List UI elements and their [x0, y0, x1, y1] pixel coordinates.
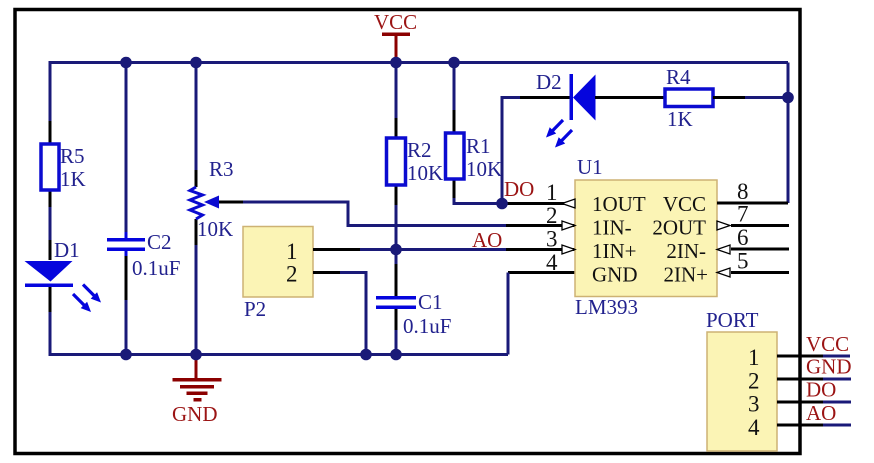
wire: bottom ground rail — [50, 353, 508, 356]
svg-text:3: 3 — [546, 227, 558, 252]
svg-text:D2: D2 — [536, 70, 562, 94]
junction: C1 / ground rail — [390, 349, 402, 361]
wire: R3 wiper to U1 pin 2 — [219, 202, 575, 226]
svg-text:GND: GND — [172, 402, 218, 426]
wire: P2 pin1 to AO net — [313, 248, 575, 251]
VCC power symbol — [374, 10, 417, 62]
svg-text:0.1uF: 0.1uF — [403, 314, 451, 338]
svg-text:1OUT: 1OUT — [592, 192, 646, 216]
svg-text:2: 2 — [748, 369, 760, 394]
junction: DO node — [496, 198, 508, 210]
svg-text:P2: P2 — [244, 297, 266, 321]
svg-text:AO: AO — [806, 401, 836, 425]
junction: VCC / R2 — [390, 57, 402, 69]
svg-text:1IN-: 1IN- — [592, 216, 632, 240]
svg-text:DO: DO — [504, 177, 534, 201]
svg-text:2IN+: 2IN+ — [663, 263, 708, 287]
svg-text:2IN-: 2IN- — [666, 239, 706, 263]
wire: R4 to right vertical — [713, 96, 788, 99]
U1 pin 3 arrow — [562, 245, 575, 254]
svg-text:1: 1 — [748, 345, 760, 370]
svg-text:2: 2 — [546, 203, 558, 228]
svg-text:2OUT: 2OUT — [652, 216, 706, 240]
GND power symbol — [172, 355, 222, 426]
svg-text:10K: 10K — [407, 161, 443, 185]
svg-text:R2: R2 — [407, 138, 432, 162]
U1 pin 5 arrow — [717, 268, 730, 277]
wire: U1 pin 7 — [731, 224, 789, 227]
svg-text:0.1uF: 0.1uF — [132, 256, 180, 280]
svg-text:VCC: VCC — [374, 10, 417, 34]
IC U1 LM393 — [575, 155, 717, 319]
U1 pin 1 arrow — [562, 199, 575, 208]
junction: C2 bottom — [120, 349, 132, 361]
wire: R2 branch vertical — [395, 63, 398, 357]
svg-text:R3: R3 — [209, 157, 234, 181]
svg-text:R1: R1 — [466, 134, 491, 158]
svg-text:1K: 1K — [667, 107, 693, 131]
LED D2 — [536, 70, 596, 148]
wire: U1 pin 4 to ground rail — [508, 273, 575, 355]
resistor R5 — [41, 144, 86, 191]
LED D1 — [25, 238, 102, 312]
svg-text:1K: 1K — [60, 167, 86, 191]
junction: R1 top — [448, 57, 460, 69]
junction: R3 top — [190, 57, 202, 69]
wire: right vertical from top rail to pin 8 — [787, 63, 790, 204]
wire: PORT pin 4 stub — [777, 424, 823, 427]
svg-text:DO: DO — [806, 378, 836, 402]
wire: P2 pin2 down to ground rail — [313, 273, 366, 355]
wire: DO net stub right — [823, 401, 851, 404]
connector PORT — [706, 308, 777, 451]
wire: R1 branch vertical — [454, 61, 502, 204]
resistor R4 — [665, 65, 713, 131]
wire: PORT pin 1 stub — [777, 355, 823, 358]
svg-text:10K: 10K — [466, 157, 502, 181]
svg-text:AO: AO — [472, 228, 502, 252]
svg-text:LM393: LM393 — [575, 295, 638, 319]
svg-text:D1: D1 — [54, 238, 80, 262]
capacitor C1 — [376, 290, 451, 338]
resistor R2 — [387, 138, 444, 185]
junction: P2 pin2 / ground rail — [360, 349, 372, 361]
junction: GND node — [190, 349, 202, 361]
wire: left vertical (R5/D1 branch) — [49, 61, 52, 356]
svg-text:1: 1 — [546, 180, 558, 205]
wire: U1 pin 1 (DO) — [502, 202, 575, 205]
U1 pin 6 arrow — [717, 245, 730, 254]
svg-text:2: 2 — [286, 262, 298, 287]
svg-text:GND: GND — [592, 263, 638, 287]
wire: U1 pin 5 — [731, 271, 789, 274]
svg-text:7: 7 — [737, 202, 749, 227]
svg-text:6: 6 — [737, 225, 749, 250]
svg-text:VCC: VCC — [663, 192, 706, 216]
svg-text:5: 5 — [737, 249, 749, 274]
svg-text:R4: R4 — [666, 65, 691, 89]
svg-text:10K: 10K — [197, 217, 233, 241]
wire: DO net vertical to D2 — [502, 98, 570, 204]
junction: AO node — [390, 244, 402, 256]
capacitor C2 — [107, 230, 180, 280]
wire: D2 anode to R4 — [595, 96, 665, 99]
svg-text:8: 8 — [737, 179, 749, 204]
svg-text:3: 3 — [748, 392, 760, 417]
wire: GND net stub right — [823, 378, 851, 381]
svg-text:1IN+: 1IN+ — [592, 239, 637, 263]
wire: PORT pin 3 stub — [777, 401, 823, 404]
svg-text:R5: R5 — [60, 144, 85, 168]
svg-text:U1: U1 — [577, 155, 603, 179]
svg-text:VCC: VCC — [806, 332, 849, 356]
U1 pin 2 arrow — [562, 221, 575, 230]
svg-text:GND: GND — [806, 355, 852, 379]
resistor R1 — [446, 133, 503, 181]
connector P2 — [243, 227, 313, 322]
wire: C2 branch vertical — [125, 61, 128, 356]
svg-text:PORT: PORT — [706, 308, 759, 332]
junction: R4 / pin 8 — [782, 92, 794, 104]
wire: U1 pin 6 — [731, 248, 789, 251]
svg-text:4: 4 — [748, 415, 760, 440]
junction: C2 top — [120, 57, 132, 69]
wire: VCC net stub right — [823, 355, 850, 358]
potentiometer R3 — [190, 157, 234, 241]
U1 pin 7 arrow — [717, 221, 730, 230]
wire: top VCC rail — [50, 61, 788, 64]
svg-text:4: 4 — [546, 250, 558, 275]
svg-text:1: 1 — [286, 239, 298, 264]
svg-text:C2: C2 — [147, 230, 172, 254]
wire: AO net stub right — [823, 424, 851, 427]
wire: U1 pin 8 — [717, 202, 788, 205]
wire: R3 branch vertical — [195, 61, 198, 356]
wire: PORT pin 2 stub — [777, 378, 823, 381]
svg-text:C1: C1 — [418, 290, 443, 314]
